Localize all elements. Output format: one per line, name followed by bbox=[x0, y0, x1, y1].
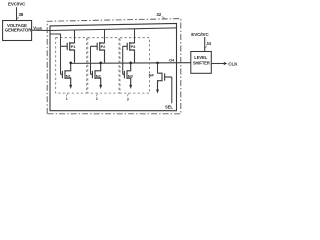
wire CLK output bbox=[211, 63, 224, 65]
node O4 bbox=[156, 62, 159, 65]
svg-text:SHIFTER: SHIFTER bbox=[193, 61, 210, 66]
svg-text:N2: N2 bbox=[96, 74, 102, 79]
leader 38 bbox=[17, 17, 19, 19]
leader 34 bbox=[205, 46, 207, 49]
node output stage 3 bbox=[129, 62, 132, 65]
svg-text:SEL: SEL bbox=[165, 104, 173, 109]
ground arrow stage 3 bbox=[129, 85, 132, 89]
svg-text:EVC/IVC: EVC/IVC bbox=[8, 2, 26, 7]
transistor P3 bbox=[123, 42, 135, 63]
dash-dot outer boundary bbox=[47, 19, 181, 114]
wire drain N4 bbox=[157, 63, 159, 73]
stage 3 tick and label bbox=[127, 93, 128, 96]
ground arrow N4 bbox=[156, 89, 159, 93]
wire feedback input to stage 1 bbox=[50, 34, 61, 46]
svg-text:O4: O4 bbox=[169, 58, 175, 63]
wire rail drop stage 2 bbox=[104, 29, 106, 43]
transistor N1 bbox=[61, 63, 71, 86]
svg-text:3: 3 bbox=[127, 97, 129, 101]
stage 2 tick and label bbox=[96, 93, 97, 96]
svg-text:N1: N1 bbox=[66, 74, 72, 79]
voltage generator block bbox=[3, 21, 32, 41]
wire gate bus stage 2 bbox=[90, 46, 92, 74]
transistor N2 bbox=[91, 63, 101, 86]
ground arrow stage 2 bbox=[99, 85, 102, 89]
wire Vsub top rail bbox=[50, 28, 177, 31]
wire rail drop stage 3 bbox=[134, 29, 136, 43]
wire output bus (inter-stage) bbox=[71, 62, 191, 65]
svg-text:EVC/IVC: EVC/IVC bbox=[191, 32, 209, 37]
inverter stage 2 dashed box bbox=[88, 38, 119, 93]
node output stage 1 bbox=[69, 62, 72, 65]
inverter stage 1 dashed box bbox=[56, 38, 87, 93]
svg-text:38: 38 bbox=[19, 12, 24, 17]
inverter stage 3 dashed box bbox=[120, 38, 150, 93]
transistor P2 bbox=[91, 42, 105, 63]
arrow CLK bbox=[224, 62, 227, 65]
ground arrow stage 1 bbox=[69, 85, 72, 89]
svg-text:GENERATOR: GENERATOR bbox=[5, 28, 32, 33]
wire gate bus stage 1 bbox=[60, 46, 62, 74]
wire Vsub from generator to oscillator box bbox=[32, 29, 50, 31]
svg-text:CLK: CLK bbox=[228, 61, 238, 66]
svg-text:1: 1 bbox=[66, 97, 68, 101]
svg-text:32: 32 bbox=[156, 12, 161, 17]
wire rail drop stage 1 bbox=[74, 30, 76, 43]
svg-text:N4: N4 bbox=[149, 73, 155, 78]
transistor N4 (mirrored) bbox=[158, 73, 172, 90]
stage 1 tick and label bbox=[66, 93, 67, 96]
svg-text:LEVEL: LEVEL bbox=[194, 55, 207, 60]
wire SEL to gate of N4 bbox=[171, 77, 173, 103]
wire EVC/IVC to level shifter bbox=[204, 37, 206, 52]
leader 32 bbox=[162, 17, 166, 19]
transistor P1 bbox=[61, 42, 75, 63]
node output stage 2 bbox=[99, 62, 102, 65]
wire EVC/IVC input to voltage generator bbox=[16, 7, 18, 20]
wire gate bus stage 3 bbox=[122, 46, 124, 74]
transistor N3 bbox=[123, 63, 131, 86]
level shifter block 34 bbox=[191, 52, 212, 74]
svg-text:34: 34 bbox=[206, 41, 211, 46]
oscillator block 32 bbox=[50, 23, 177, 110]
svg-text:2: 2 bbox=[96, 97, 98, 101]
svg-text:N3: N3 bbox=[128, 74, 134, 79]
